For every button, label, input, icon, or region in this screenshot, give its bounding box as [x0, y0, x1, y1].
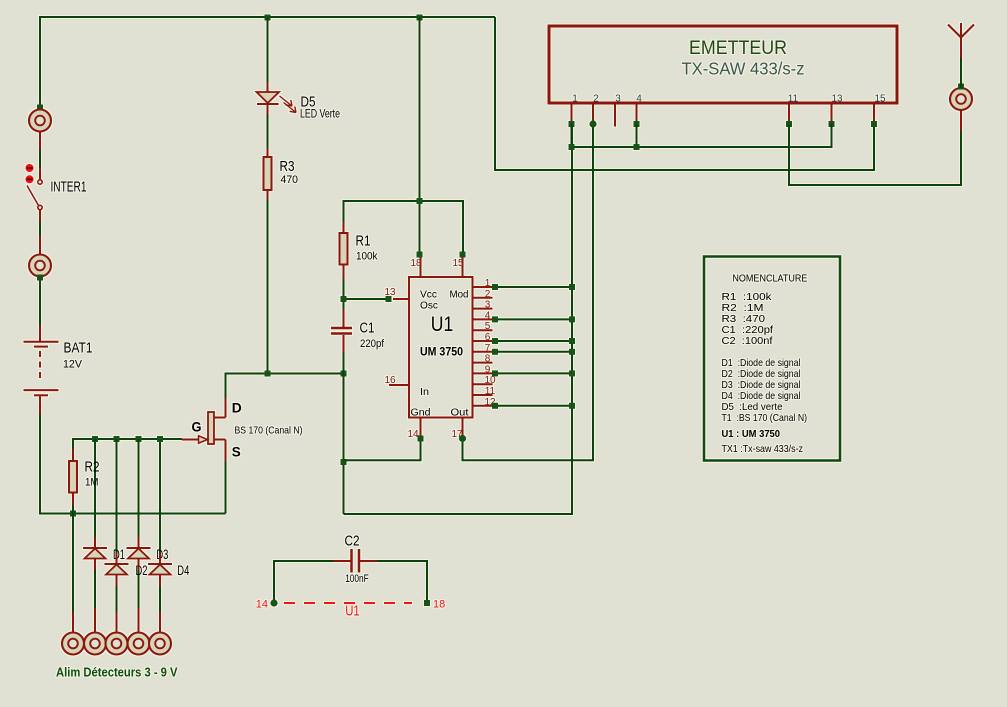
node junction R1/C1 x pin13 [341, 296, 347, 302]
connector antenna [950, 88, 972, 110]
wire D1 col lower [94, 570, 96, 608]
pin 9 right [473, 372, 493, 374]
svg-text:In: In [420, 386, 429, 398]
pin 15 stub [873, 105, 875, 122]
wire pin6 to bus [495, 340, 572, 342]
wire pin12 to bus [495, 405, 572, 407]
pin 2 stub [592, 105, 594, 122]
svg-text:G: G [192, 419, 202, 435]
pin lead conn3 [116, 612, 118, 633]
wire U1 gnd pin14 to C1 column [344, 439, 421, 461]
wire pin9 to bus [495, 372, 572, 374]
wire R2 bottom to gnd [72, 505, 74, 514]
wire C1 bottom down to ground junction [343, 352, 345, 514]
pin 11 right [473, 394, 493, 396]
svg-text:10: 10 [484, 375, 496, 386]
pin lead conn4 [138, 608, 140, 633]
wire Vcc down-right to emetteur pin15 line [495, 17, 874, 170]
node square antenna [958, 84, 964, 90]
connector bottom 1 [62, 633, 84, 655]
connector bottom 2 [84, 633, 106, 655]
svg-text:R3: R3 [280, 159, 295, 175]
diode D1 [83, 537, 107, 570]
node square gate wire end [157, 436, 163, 442]
svg-text:3: 3 [485, 300, 491, 311]
pin 3 right [473, 308, 493, 310]
antenna lead lower [960, 110, 962, 131]
node square pin4 [634, 121, 640, 127]
pin lead conn1 [72, 612, 74, 633]
wire transistor source down [225, 462, 227, 514]
connector bottom 3 [106, 633, 128, 655]
svg-text:11: 11 [788, 94, 799, 105]
node junction C1 col x gnd line [341, 459, 347, 465]
node junction pin1 line [569, 144, 575, 150]
wire pin7 to bus [495, 351, 572, 353]
pin 13 left [393, 298, 409, 300]
pin 16 left [389, 384, 409, 386]
svg-text:13: 13 [384, 287, 396, 298]
svg-text:Gnd: Gnd [411, 407, 431, 419]
node square pin14 [418, 436, 424, 442]
svg-text:17: 17 [451, 429, 463, 440]
svg-text:4: 4 [485, 310, 491, 321]
antenna AE1 [948, 23, 974, 58]
svg-text:2: 2 [485, 289, 491, 300]
wire drain top line [226, 374, 344, 399]
wire pin4 to bus [495, 318, 572, 320]
wire D3 col lower [138, 570, 140, 608]
wire D2 col upper [116, 439, 118, 553]
pin 12 right [473, 405, 493, 407]
pin lead switch top [39, 168, 41, 179]
capacitor C2 [334, 549, 378, 573]
wire battery to gnd rail left [40, 414, 226, 514]
svg-text:18: 18 [433, 599, 445, 611]
svg-text:R1: R1 [356, 234, 371, 250]
svg-text:D4: D4 [177, 563, 189, 578]
pin 17 bottom [462, 418, 464, 439]
node square pin15 [871, 121, 877, 127]
wire pin4 down [636, 124, 638, 147]
pin 2 right [473, 297, 493, 299]
EMETTEUR [549, 23, 974, 185]
pin 14 bottom [420, 418, 422, 439]
wire bottom gnd right segment [344, 124, 573, 514]
wire U1 pin18 column [419, 17, 421, 254]
node dot pin17 [459, 435, 466, 442]
pin lead connector J2 top [39, 236, 41, 256]
wire D5 column top [267, 17, 269, 82]
wire R1 bottom to C1 top [343, 279, 345, 309]
module TX1 EMETTEUR box [549, 26, 897, 103]
wire C2 left leg [274, 561, 334, 600]
diode D4 [148, 553, 172, 586]
svg-text:9: 9 [485, 364, 491, 375]
svg-text:U1 : UM 3750: U1 : UM 3750 [722, 428, 781, 440]
svg-text:BS 170 (Canal N): BS 170 (Canal N) [235, 425, 303, 437]
pin 6 right [473, 340, 493, 342]
node junction R2 col x gnd left [70, 511, 76, 517]
pin 5 right [473, 329, 493, 331]
wire D4 col upper [159, 439, 161, 553]
pin 4 right [473, 318, 493, 320]
wire pin13 horizontal [344, 298, 390, 300]
node junction D5 column on rail [265, 15, 271, 21]
svg-text:13: 13 [831, 94, 843, 105]
wire R1-top horizontal to U1 pin15 [344, 201, 464, 254]
resistor R2 [69, 449, 77, 505]
svg-text:2: 2 [593, 94, 599, 105]
capacitor C1 [331, 309, 352, 352]
resistor R1 [340, 222, 348, 279]
svg-text:1M: 1M [85, 477, 99, 489]
wire U1 out pin17 to emetteur pin2 column [463, 124, 594, 460]
wire antenna to connector [960, 58, 962, 88]
pin lead conn2 [94, 608, 96, 633]
pin 3 stub [614, 105, 616, 127]
wire R3 down to drain line [267, 200, 269, 374]
svg-text:470: 470 [281, 174, 299, 186]
wire top Vcc rail [40, 17, 495, 107]
wire D2 col lower [116, 586, 118, 612]
svg-text:U1: U1 [345, 603, 360, 620]
wire pin1 to bus [495, 286, 572, 288]
pin 1 right [473, 286, 493, 288]
pin 11 stub [788, 105, 790, 122]
wire R2/conn1 column [72, 514, 74, 613]
svg-text:Osc: Osc [420, 300, 438, 312]
wire D3 col upper [138, 439, 140, 537]
svg-text:U1: U1 [431, 313, 454, 336]
svg-text:EMETTEUR: EMETTEUR [689, 37, 787, 59]
node square pin11 [786, 121, 792, 127]
svg-text:14: 14 [407, 429, 419, 440]
svg-text:NOMENCLATURE: NOMENCLATURE [732, 273, 807, 285]
svg-text:1: 1 [485, 278, 491, 289]
connector J1 top [29, 110, 51, 132]
U1 right pins [473, 278, 576, 409]
diode D3 [127, 537, 151, 570]
node junction C1 column x drain line [341, 371, 347, 377]
capacitor C2 block [256, 534, 446, 620]
wire D5 to R3 [267, 115, 269, 148]
wire pin11 to antenna [789, 124, 961, 185]
svg-text:14: 14 [256, 599, 268, 611]
svg-text:TX-SAW 433/s-z: TX-SAW 433/s-z [682, 59, 805, 79]
svg-text:220pf: 220pf [360, 338, 385, 350]
svg-text:S: S [232, 444, 241, 460]
svg-text:15: 15 [874, 94, 886, 105]
node square pin1 [569, 121, 575, 127]
switch INTER1 [26, 164, 43, 210]
wire pin1-pin4-pin13 bus [572, 124, 832, 147]
pin 13 stub [831, 105, 833, 122]
svg-text:D2: D2 [136, 563, 148, 578]
svg-text:Alim Détecteurs 3 - 9 V: Alim Détecteurs 3 - 9 V [56, 665, 178, 680]
wire connector2 to battery [39, 277, 41, 326]
svg-text:UM 3750: UM 3750 [420, 347, 463, 359]
svg-text:INTER1: INTER1 [51, 180, 87, 196]
wire switch-battery column top connector [39, 150, 41, 168]
battery BAT1 [24, 326, 59, 414]
NOMENCLATURE [704, 257, 840, 461]
svg-text:Mod: Mod [450, 289, 469, 301]
node junction U1 pin18 column on rail [417, 15, 423, 21]
pin 8 right [473, 362, 493, 364]
pin 10 right [473, 383, 493, 385]
wire D4 col lower [159, 586, 161, 612]
svg-text:100k: 100k [356, 251, 378, 263]
connector bottom 5 [149, 633, 171, 655]
connector bottom 4 [128, 633, 150, 655]
node junction D3 col [136, 436, 142, 442]
connector J2 [29, 255, 51, 277]
wire C2 right leg [377, 561, 427, 600]
svg-text:3: 3 [615, 94, 621, 105]
pin 1 stub [571, 105, 573, 122]
svg-text:100nF: 100nF [345, 573, 369, 585]
svg-text:C2: C2 [345, 534, 360, 550]
svg-text:C2 :100nf: C2 :100nf [722, 335, 773, 347]
node square 18 [424, 600, 430, 606]
svg-text:D: D [232, 400, 242, 416]
node junction pin4 line [634, 144, 640, 150]
svg-text:D1: D1 [113, 547, 125, 562]
svg-text:D3: D3 [156, 547, 168, 562]
node dot 14 [270, 599, 277, 606]
svg-text:BAT1: BAT1 [64, 341, 93, 357]
svg-text:11: 11 [485, 386, 496, 397]
svg-text:1: 1 [572, 94, 578, 105]
node junction pin18 x R1 line [417, 198, 423, 204]
diode D2 [105, 553, 129, 586]
svg-text:Out: Out [451, 407, 469, 419]
svg-text:4: 4 [636, 94, 642, 105]
node junction D1 col [92, 436, 98, 442]
pin lead connector J1 bottom [39, 131, 41, 150]
LED D5 [257, 82, 297, 115]
pin 4 stub [636, 105, 638, 122]
svg-text:12V: 12V [63, 359, 83, 371]
pin lead switch bottom [39, 210, 41, 222]
svg-text:LED Verte: LED Verte [300, 109, 340, 121]
node junction R3 x drain line [265, 371, 271, 377]
wire dashed U1 span [284, 602, 412, 604]
IC U1 UM3750 [409, 277, 473, 419]
pin 7 right [473, 351, 493, 353]
svg-text:R2: R2 [85, 460, 100, 476]
svg-text:TX1 :Tx-saw 433/s-z: TX1 :Tx-saw 433/s-z [722, 443, 804, 455]
pin 18 top [420, 255, 422, 278]
pin lead conn5 [159, 612, 161, 633]
svg-text:8: 8 [485, 354, 491, 365]
node square pin13 wire end [386, 296, 392, 302]
svg-text:C1: C1 [360, 321, 375, 337]
svg-text:T1 :BS 170 (Canal N): T1 :BS 170 (Canal N) [722, 412, 808, 424]
wire gate bus horizontal [73, 439, 182, 460]
svg-text:5: 5 [485, 321, 491, 332]
node square below connector J2 [37, 275, 43, 281]
svg-text:7: 7 [485, 343, 491, 354]
node square pin15 [460, 252, 466, 258]
node square pin13 [829, 121, 835, 127]
svg-text:18: 18 [410, 258, 422, 269]
node junction D4 col [157, 436, 163, 442]
node junction D2 col [114, 436, 120, 442]
resistor R3 [264, 148, 272, 200]
wire switch to connector2 [39, 222, 41, 236]
pin 15 top [462, 255, 464, 278]
node dot pin2 [589, 120, 596, 127]
node square above connector J1 [37, 105, 43, 111]
nomenclature box [704, 257, 840, 461]
node square pin18 [417, 252, 423, 258]
svg-text:16: 16 [384, 375, 396, 386]
svg-text:6: 6 [485, 332, 491, 343]
svg-text:15: 15 [452, 258, 464, 269]
wire D1 col upper [94, 439, 96, 537]
transistor Q1 BS170 [182, 398, 226, 462]
